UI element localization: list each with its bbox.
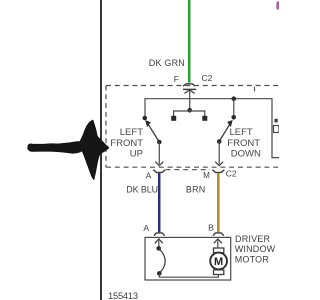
wire: right contact stem (233, 99, 235, 116)
node: left blade pivot (157, 140, 162, 145)
svg-text:B: B (208, 223, 214, 233)
svg-text:BRN: BRN (186, 184, 206, 194)
wire: motor bottom to breaker (159, 274, 218, 278)
switch housing dashed box: right edge (254, 87, 256, 92)
node: center left contact (square) (171, 116, 176, 121)
svg-text:DRIVER: DRIVER (235, 234, 271, 244)
male terminal arrow A (down) (155, 162, 163, 166)
female terminal arc M (212, 170, 224, 173)
female terminal arc at motor B (213, 233, 224, 236)
node: right bus junction (232, 96, 237, 101)
svg-text:LEFT: LEFT (120, 127, 143, 138)
svg-text:LEFT: LEFT (230, 127, 253, 138)
right box component fragment (274, 126, 280, 133)
svg-text:A: A (146, 171, 152, 181)
circuit breaker (in motor) (156, 246, 161, 251)
svg-text:UP: UP (130, 149, 143, 160)
node: right stationary contact (231, 115, 236, 120)
switch bus wire (to right box corner) (145, 99, 279, 158)
wire: left pivot down to connector (158, 142, 160, 164)
node: right blade pivot (217, 139, 222, 144)
svg-text:DK BLU: DK BLU (126, 185, 158, 195)
wire BRN (217, 173, 220, 232)
svg-text:DOWN: DOWN (231, 149, 261, 160)
male terminal arrow (top, into switch) (183, 88, 196, 90)
node: center right contact (square) (202, 116, 207, 121)
svg-text:DK GRN: DK GRN (149, 58, 185, 68)
wire DK BLU (158, 173, 161, 232)
svg-text:C2: C2 (202, 73, 213, 83)
motor box (145, 237, 231, 280)
node: center junction (187, 108, 192, 113)
svg-text:M: M (203, 171, 210, 180)
svg-text:A: A (143, 223, 149, 233)
svg-text:C2: C2 (226, 169, 237, 179)
wire: arrow stem to bus (189, 90, 191, 110)
hand-drawn arrow annotation (28, 120, 109, 180)
connector C2 dashed line (top) (106, 85, 279, 87)
wire: center T bar with contact stubs (174, 111, 205, 117)
svg-text:F: F (174, 74, 179, 84)
switch housing dashed box: left edge (105, 86, 107, 168)
wire: right pivot down to connector (218, 142, 220, 165)
vertical border line (100, 0, 102, 300)
male terminal arrow M (down) (215, 162, 223, 166)
wire PPL (cut off at page edge) (277, 2, 280, 10)
svg-text:155413: 155413 (108, 291, 138, 300)
connector C2 female terminal (top) (183, 84, 195, 86)
switch blade LEFT FRONT UP (148, 124, 159, 142)
svg-text:M: M (214, 256, 223, 268)
switch blade LEFT FRONT DOWN (219, 124, 230, 141)
connector C2 dashed line (bottom) (106, 166, 279, 168)
connector dashed line second row (166, 169, 211, 171)
male terminal arrow into motor B (214, 239, 222, 243)
svg-text:FRONT: FRONT (110, 138, 143, 149)
svg-text:WINDOW: WINDOW (235, 244, 276, 254)
wire DK GRN (188, 0, 191, 83)
svg-text:FRONT: FRONT (227, 138, 260, 149)
female terminal arc at motor A (154, 233, 165, 236)
motor M (214, 248, 224, 253)
female terminal arc A (153, 170, 165, 173)
node: left stationary contact (143, 116, 148, 121)
male terminal arrow into motor A (155, 239, 163, 243)
svg-text:MOTOR: MOTOR (235, 255, 270, 265)
